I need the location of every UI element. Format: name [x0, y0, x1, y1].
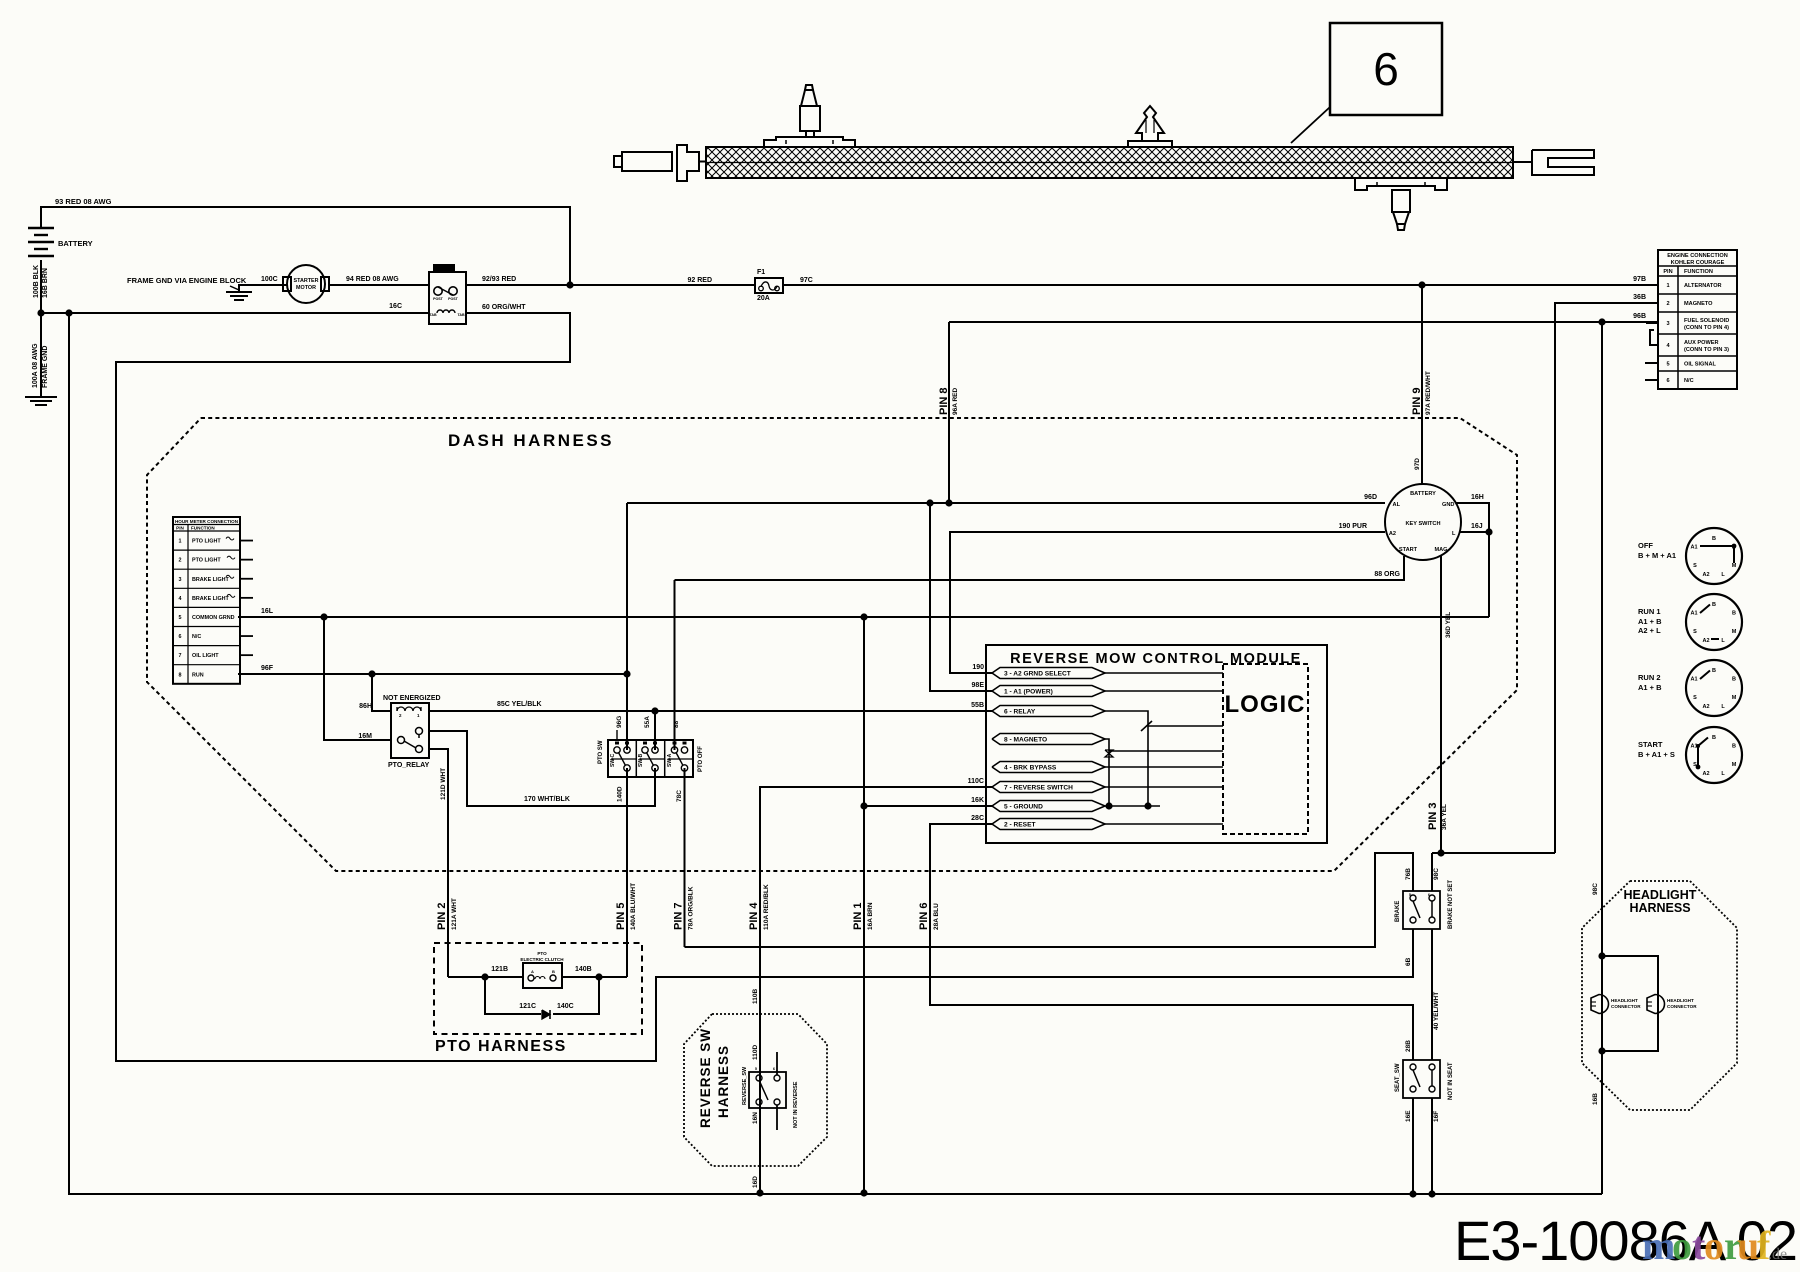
svg-text:STARTER: STARTER: [293, 278, 318, 284]
svg-text:A2: A2: [1702, 638, 1709, 644]
svg-text:A2 + L: A2 + L: [1638, 626, 1661, 635]
svg-text:REVERSE_SW: REVERSE_SW: [742, 1066, 748, 1105]
svg-text:BATTERY: BATTERY: [58, 239, 93, 248]
svg-text:M: M: [1732, 762, 1737, 768]
svg-text:HEADLIGHT: HEADLIGHT: [1611, 998, 1638, 1003]
svg-text:(CONN TO PIN 3): (CONN TO PIN 3): [1684, 347, 1729, 353]
svg-text:HARNESS: HARNESS: [716, 1045, 731, 1118]
svg-text:96A RED: 96A RED: [952, 387, 959, 415]
svg-text:HOUR METER CONNECTION: HOUR METER CONNECTION: [175, 519, 239, 524]
svg-text:121A WHT: 121A WHT: [451, 898, 458, 930]
svg-text:1 - A1 (POWER): 1 - A1 (POWER): [1004, 689, 1053, 696]
svg-text:78C: 78C: [676, 790, 683, 802]
svg-text:o: o: [1704, 1223, 1724, 1268]
svg-text:o: o: [1672, 1223, 1692, 1268]
svg-text:A: A: [531, 969, 534, 974]
svg-text:BRAKE LIGHT: BRAKE LIGHT: [192, 596, 230, 602]
svg-text:190 PUR: 190 PUR: [1339, 523, 1367, 530]
svg-text:PIN 8: PIN 8: [938, 387, 950, 415]
svg-text:A2: A2: [1702, 572, 1709, 578]
svg-text:CONNECTOR: CONNECTOR: [1667, 1004, 1697, 1009]
svg-text:20A: 20A: [757, 295, 770, 302]
svg-text:A2: A2: [1389, 531, 1396, 537]
svg-text:.de: .de: [1768, 1246, 1787, 1263]
svg-text:190: 190: [972, 664, 984, 671]
svg-text:4: 4: [179, 596, 182, 602]
svg-text:60 ORG/WHT: 60 ORG/WHT: [482, 304, 526, 311]
svg-text:140C: 140C: [557, 1003, 574, 1010]
svg-text:NOT IN SEAT: NOT IN SEAT: [1448, 1062, 1454, 1100]
svg-text:PIN: PIN: [1663, 269, 1672, 275]
svg-text:B: B: [1712, 602, 1716, 608]
svg-text:BATTERY: BATTERY: [1410, 491, 1436, 497]
svg-text:98E: 98E: [972, 682, 985, 689]
svg-text:ELECTRIC CLUTCH: ELECTRIC CLUTCH: [520, 957, 564, 962]
svg-text:85C YEL/BLK: 85C YEL/BLK: [497, 701, 542, 708]
svg-text:55B: 55B: [971, 702, 984, 709]
svg-text:1: 1: [179, 539, 182, 545]
svg-text:B: B: [1712, 668, 1716, 674]
svg-text:93 RED 08 AWG: 93 RED 08 AWG: [55, 197, 112, 206]
svg-text:AL: AL: [1393, 502, 1401, 508]
svg-text:97B: 97B: [1633, 276, 1646, 283]
svg-text:B: B: [1732, 677, 1736, 683]
svg-text:N/C: N/C: [1684, 378, 1694, 384]
svg-text:OIL LIGHT: OIL LIGHT: [192, 653, 219, 659]
svg-text:16K: 16K: [971, 797, 984, 804]
svg-text:28C: 28C: [971, 815, 984, 822]
svg-text:6: 6: [1373, 43, 1399, 95]
svg-text:S: S: [1693, 629, 1697, 635]
svg-text:A1: A1: [1690, 611, 1697, 617]
svg-text:110D: 110D: [752, 1045, 759, 1060]
svg-text:16A BRN: 16A BRN: [867, 902, 874, 930]
svg-text:8: 8: [179, 672, 182, 678]
svg-text:S: S: [1693, 695, 1697, 701]
svg-text:16M: 16M: [358, 733, 372, 740]
svg-text:FUNCTION: FUNCTION: [191, 526, 215, 531]
svg-text:5: 5: [179, 615, 182, 621]
svg-text:START: START: [1638, 740, 1663, 749]
svg-text:B: B: [1712, 735, 1716, 741]
svg-text:COMMON GRND: COMMON GRND: [192, 615, 235, 621]
svg-text:86H: 86H: [359, 703, 372, 710]
svg-text:110A RED/BLK: 110A RED/BLK: [763, 884, 770, 930]
svg-text:2: 2: [399, 713, 402, 718]
svg-text:CONNECTOR: CONNECTOR: [1611, 1004, 1641, 1009]
svg-text:L: L: [1721, 638, 1725, 644]
svg-text:GND: GND: [1442, 502, 1454, 508]
svg-text:121D WHT: 121D WHT: [440, 768, 447, 800]
svg-text:3 - A2 GRND SELECT: 3 - A2 GRND SELECT: [1004, 671, 1071, 678]
svg-text:140D: 140D: [617, 786, 624, 802]
svg-text:KEY SWITCH: KEY SWITCH: [1405, 521, 1440, 527]
svg-text:98C: 98C: [1592, 883, 1599, 895]
svg-text:A1: A1: [1690, 677, 1697, 683]
svg-text:170 WHT/BLK: 170 WHT/BLK: [524, 796, 570, 803]
svg-text:(CONN TO PIN 4): (CONN TO PIN 4): [1684, 325, 1729, 331]
svg-text:94 RED 08 AWG: 94 RED 08 AWG: [346, 276, 399, 283]
svg-text:4 - BRK BYPASS: 4 - BRK BYPASS: [1004, 765, 1057, 772]
svg-text:FRAME GND: FRAME GND: [42, 346, 49, 388]
svg-text:REVERSE SW: REVERSE SW: [698, 1028, 713, 1128]
svg-text:FUNCTION: FUNCTION: [1684, 269, 1713, 275]
svg-text:96B: 96B: [1633, 313, 1646, 320]
svg-text:16B BRN: 16B BRN: [42, 268, 49, 298]
svg-text:16B: 16B: [1592, 1093, 1599, 1105]
svg-text:FUEL SOLENOID: FUEL SOLENOID: [1684, 318, 1729, 324]
svg-text:96F: 96F: [261, 665, 274, 672]
svg-text:LOGIC: LOGIC: [1225, 691, 1306, 718]
svg-text:M: M: [1732, 629, 1737, 635]
svg-text:PTO LIGHT: PTO LIGHT: [192, 558, 221, 564]
svg-text:B + A1 + S: B + A1 + S: [1638, 750, 1675, 759]
svg-text:NOT IN REVERSE: NOT IN REVERSE: [793, 1081, 799, 1128]
svg-text:6B: 6B: [1405, 957, 1412, 966]
svg-text:5 - GROUND: 5 - GROUND: [1004, 804, 1043, 811]
svg-text:140B: 140B: [575, 966, 592, 973]
svg-text:76B: 76B: [1405, 868, 1412, 880]
svg-text:m: m: [1642, 1223, 1675, 1268]
svg-text:SEAT_SW: SEAT_SW: [1395, 1063, 1401, 1092]
svg-text:97A RED/WHT: 97A RED/WHT: [1425, 371, 1432, 415]
svg-text:140A BLU/WHT: 140A BLU/WHT: [630, 883, 637, 930]
svg-text:2: 2: [1666, 301, 1669, 307]
svg-text:16J: 16J: [1471, 523, 1483, 530]
svg-text:PTO: PTO: [537, 951, 547, 956]
svg-text:MAGNETO: MAGNETO: [1684, 301, 1713, 307]
svg-text:PIN 9: PIN 9: [1411, 387, 1423, 415]
svg-text:A2: A2: [1702, 704, 1709, 710]
svg-text:BRAKE NOT SET: BRAKE NOT SET: [1448, 880, 1454, 929]
svg-text:A1: A1: [1690, 545, 1697, 551]
svg-text:POST: POST: [433, 297, 444, 301]
svg-text:B: B: [552, 969, 555, 974]
svg-text:AUX POWER: AUX POWER: [1684, 340, 1719, 346]
svg-text:3: 3: [179, 577, 182, 583]
svg-text:PTO SW: PTO SW: [598, 740, 604, 764]
svg-text:HARNESS: HARNESS: [1629, 901, 1690, 915]
svg-text:A1 + B: A1 + B: [1638, 617, 1662, 626]
svg-text:28B: 28B: [1405, 1040, 1412, 1052]
svg-text:M: M: [1732, 695, 1737, 701]
svg-text:96D: 96D: [1364, 494, 1377, 501]
svg-text:L: L: [1721, 572, 1725, 578]
svg-text:110C: 110C: [968, 778, 984, 785]
svg-text:16H: 16H: [1471, 494, 1484, 501]
svg-text:HEADLIGHT: HEADLIGHT: [1667, 998, 1694, 1003]
svg-text:16C: 16C: [389, 303, 402, 310]
svg-text:PIN 7: PIN 7: [673, 902, 685, 930]
svg-text:6: 6: [179, 634, 182, 640]
svg-text:6: 6: [1666, 378, 1669, 384]
svg-text:SW-C: SW-C: [610, 753, 616, 767]
svg-text:BRAKE: BRAKE: [1395, 901, 1401, 922]
svg-text:MOTOR: MOTOR: [296, 285, 316, 291]
svg-text:PIN 4: PIN 4: [748, 902, 760, 930]
svg-text:40 YEL/WHT: 40 YEL/WHT: [1433, 992, 1440, 1030]
svg-text:POST: POST: [448, 297, 459, 301]
svg-text:S: S: [1693, 563, 1697, 569]
svg-text:PIN 3: PIN 3: [1427, 802, 1439, 830]
svg-text:7: 7: [179, 653, 182, 659]
svg-text:OFF: OFF: [1638, 541, 1653, 550]
svg-text:N/C: N/C: [192, 634, 201, 640]
svg-text:100B BLK: 100B BLK: [33, 265, 40, 298]
svg-text:28A BLU: 28A BLU: [933, 903, 940, 930]
svg-text:7 - REVERSE SWITCH: 7 - REVERSE SWITCH: [1004, 785, 1073, 792]
svg-text:OIL SIGNAL: OIL SIGNAL: [1684, 362, 1716, 368]
svg-text:2 - RESET: 2 - RESET: [1004, 822, 1036, 829]
svg-text:88: 88: [673, 720, 680, 728]
svg-text:5: 5: [1409, 893, 1411, 897]
svg-text:36D YEL: 36D YEL: [1445, 612, 1452, 638]
svg-text:L: L: [1452, 531, 1456, 537]
svg-text:B: B: [1712, 536, 1716, 542]
svg-text:L: L: [1721, 704, 1725, 710]
svg-text:6: 6: [1428, 893, 1430, 897]
svg-text:8 - MAGNETO: 8 - MAGNETO: [1004, 737, 1047, 744]
svg-text:PTO OFF: PTO OFF: [698, 746, 704, 772]
svg-text:16E: 16E: [1405, 1110, 1412, 1122]
svg-text:ALTERNATOR: ALTERNATOR: [1684, 283, 1722, 289]
svg-text:PTO_RELAY: PTO_RELAY: [388, 762, 430, 769]
svg-text:16F: 16F: [1433, 1111, 1440, 1122]
svg-text:16N: 16N: [752, 1112, 759, 1124]
svg-text:96G: 96G: [616, 716, 623, 728]
svg-text:M: M: [1732, 563, 1737, 569]
svg-text:u: u: [1737, 1223, 1759, 1268]
svg-text:98C: 98C: [1433, 868, 1440, 880]
svg-text:F1: F1: [757, 269, 765, 276]
svg-text:92/93 RED: 92/93 RED: [482, 276, 516, 283]
svg-text:5: 5: [1666, 362, 1669, 368]
svg-text:RUN: RUN: [192, 672, 204, 678]
svg-text:START: START: [1399, 547, 1418, 553]
svg-text:L: L: [1721, 771, 1725, 777]
svg-text:3: 3: [1666, 321, 1669, 327]
svg-text:HEADLIGHT: HEADLIGHT: [1624, 888, 1697, 902]
svg-text:KOHLER COURAGE: KOHLER COURAGE: [1671, 260, 1725, 266]
svg-text:110B: 110B: [752, 989, 759, 1004]
svg-text:BRAKE LIGHT: BRAKE LIGHT: [192, 577, 230, 583]
svg-text:5: 5: [755, 1067, 757, 1071]
svg-text:ENGINE CONNECTION: ENGINE CONNECTION: [1667, 253, 1728, 259]
svg-text:B: B: [1732, 611, 1736, 617]
svg-text:MAG: MAG: [1434, 547, 1447, 553]
svg-text:PIN 5: PIN 5: [615, 902, 627, 930]
svg-text:16D: 16D: [752, 1176, 759, 1188]
svg-text:SW-B: SW-B: [638, 753, 644, 767]
svg-text:1: 1: [1666, 283, 1669, 289]
svg-text:PIN 2: PIN 2: [436, 902, 448, 930]
svg-text:RUN 1: RUN 1: [1638, 607, 1661, 616]
svg-text:36A YEL: 36A YEL: [1441, 804, 1448, 830]
svg-text:100C: 100C: [261, 276, 278, 283]
svg-text:1: 1: [417, 713, 420, 718]
svg-text:TAB: TAB: [457, 313, 465, 317]
svg-text:97C: 97C: [800, 277, 813, 284]
svg-text:A2: A2: [1702, 771, 1709, 777]
svg-text:RUN 2: RUN 2: [1638, 673, 1661, 682]
svg-text:121B: 121B: [491, 966, 508, 973]
svg-text:PTO LIGHT: PTO LIGHT: [192, 539, 221, 545]
svg-text:16L: 16L: [261, 608, 274, 615]
svg-text:PIN 1: PIN 1: [852, 902, 864, 930]
svg-text:TAB: TAB: [429, 313, 437, 317]
svg-text:4: 4: [1666, 343, 1670, 349]
svg-text:2: 2: [179, 558, 182, 564]
svg-text:PIN 6: PIN 6: [918, 902, 930, 930]
svg-text:121C: 121C: [519, 1003, 536, 1010]
svg-text:36B: 36B: [1633, 294, 1646, 301]
svg-text:6 - RELAY: 6 - RELAY: [1004, 709, 1036, 716]
svg-text:97D: 97D: [1414, 458, 1421, 470]
svg-text:A1 + B: A1 + B: [1638, 683, 1662, 692]
svg-text:FRAME GND VIA ENGINE BLOCK: FRAME GND VIA ENGINE BLOCK: [127, 276, 247, 285]
svg-text:100A 08 AWG: 100A 08 AWG: [32, 343, 39, 388]
svg-text:6: 6: [773, 1067, 775, 1071]
svg-text:B: B: [1732, 744, 1736, 750]
svg-text:SW-A: SW-A: [667, 753, 673, 767]
svg-text:92 RED: 92 RED: [687, 277, 712, 284]
svg-text:NOT ENERGIZED: NOT ENERGIZED: [383, 695, 441, 702]
svg-text:88 ORG: 88 ORG: [1374, 571, 1400, 578]
svg-text:PIN: PIN: [176, 526, 184, 531]
svg-text:78A ORG/BLK: 78A ORG/BLK: [688, 886, 695, 930]
svg-text:55A: 55A: [644, 716, 651, 728]
svg-text:PTO HARNESS: PTO HARNESS: [435, 1038, 567, 1055]
svg-text:DASH HARNESS: DASH HARNESS: [448, 431, 614, 450]
svg-text:B + M + A1: B + M + A1: [1638, 551, 1676, 560]
